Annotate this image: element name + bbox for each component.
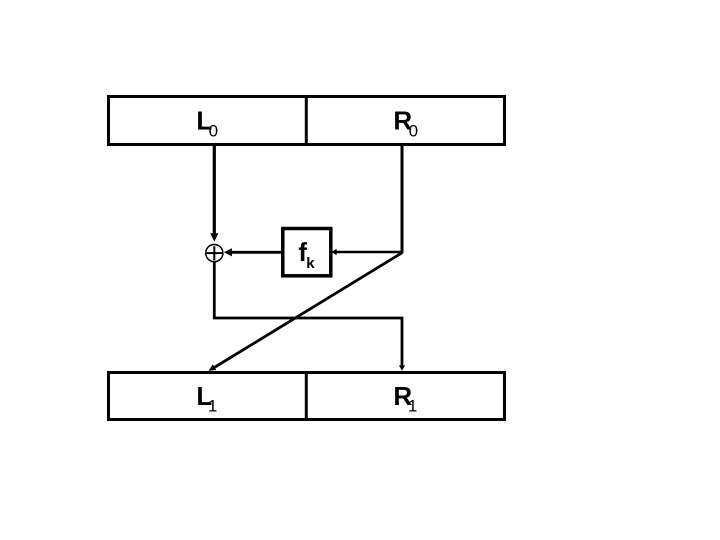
divider between L1 and R1 — [305, 371, 308, 420]
label L1 — [196, 381, 217, 415]
arrowhead into f_k right edge — [332, 249, 337, 255]
svg-text:0: 0 — [409, 122, 418, 141]
XOR circle — [206, 245, 223, 262]
svg-text:1: 1 — [208, 397, 217, 416]
label L0 — [196, 105, 218, 140]
label R0 — [393, 105, 418, 140]
svg-text:1: 1 — [408, 397, 417, 416]
wire from corner to f_k — [336, 251, 402, 254]
divider between L0 and R0 — [305, 95, 308, 145]
register box L0/R0 — [109, 97, 505, 145]
svg-text:0: 0 — [209, 122, 218, 141]
wire from f_k to XOR — [232, 251, 281, 254]
wire from R0 down — [401, 146, 404, 253]
arrowhead into R1 top — [399, 365, 405, 370]
arrowhead into XOR right — [224, 248, 232, 256]
XOR plus vertical — [213, 246, 215, 260]
wire from L0 down to XOR — [213, 146, 216, 234]
register box L1/R1 — [109, 373, 505, 420]
XOR plus horizontal — [207, 252, 223, 254]
wire from XOR down, across, down to R1 — [214, 262, 402, 366]
box f_k — [283, 229, 331, 276]
svg-text:k: k — [306, 255, 315, 272]
diagonal wire R0 to L1 — [212, 253, 402, 369]
label R1 — [393, 381, 417, 415]
label f_k — [298, 237, 315, 272]
arrowhead into L1 top — [209, 364, 217, 370]
arrowhead into XOR top — [210, 233, 218, 241]
